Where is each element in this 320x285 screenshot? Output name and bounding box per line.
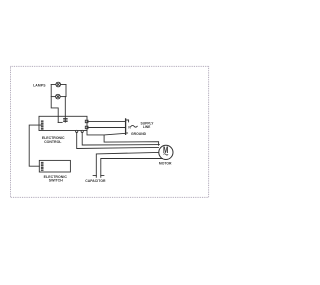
svg-text:LINE: LINE bbox=[143, 125, 151, 129]
svg-text:LAMPS: LAMPS bbox=[33, 84, 46, 88]
svg-text:CONTROL: CONTROL bbox=[44, 140, 62, 144]
svg-text:SWITCH: SWITCH bbox=[49, 179, 64, 183]
svg-text:GROUND: GROUND bbox=[131, 132, 147, 136]
svg-text:MOTOR: MOTOR bbox=[159, 162, 172, 166]
svg-text:CAPACITOR: CAPACITOR bbox=[85, 179, 106, 183]
